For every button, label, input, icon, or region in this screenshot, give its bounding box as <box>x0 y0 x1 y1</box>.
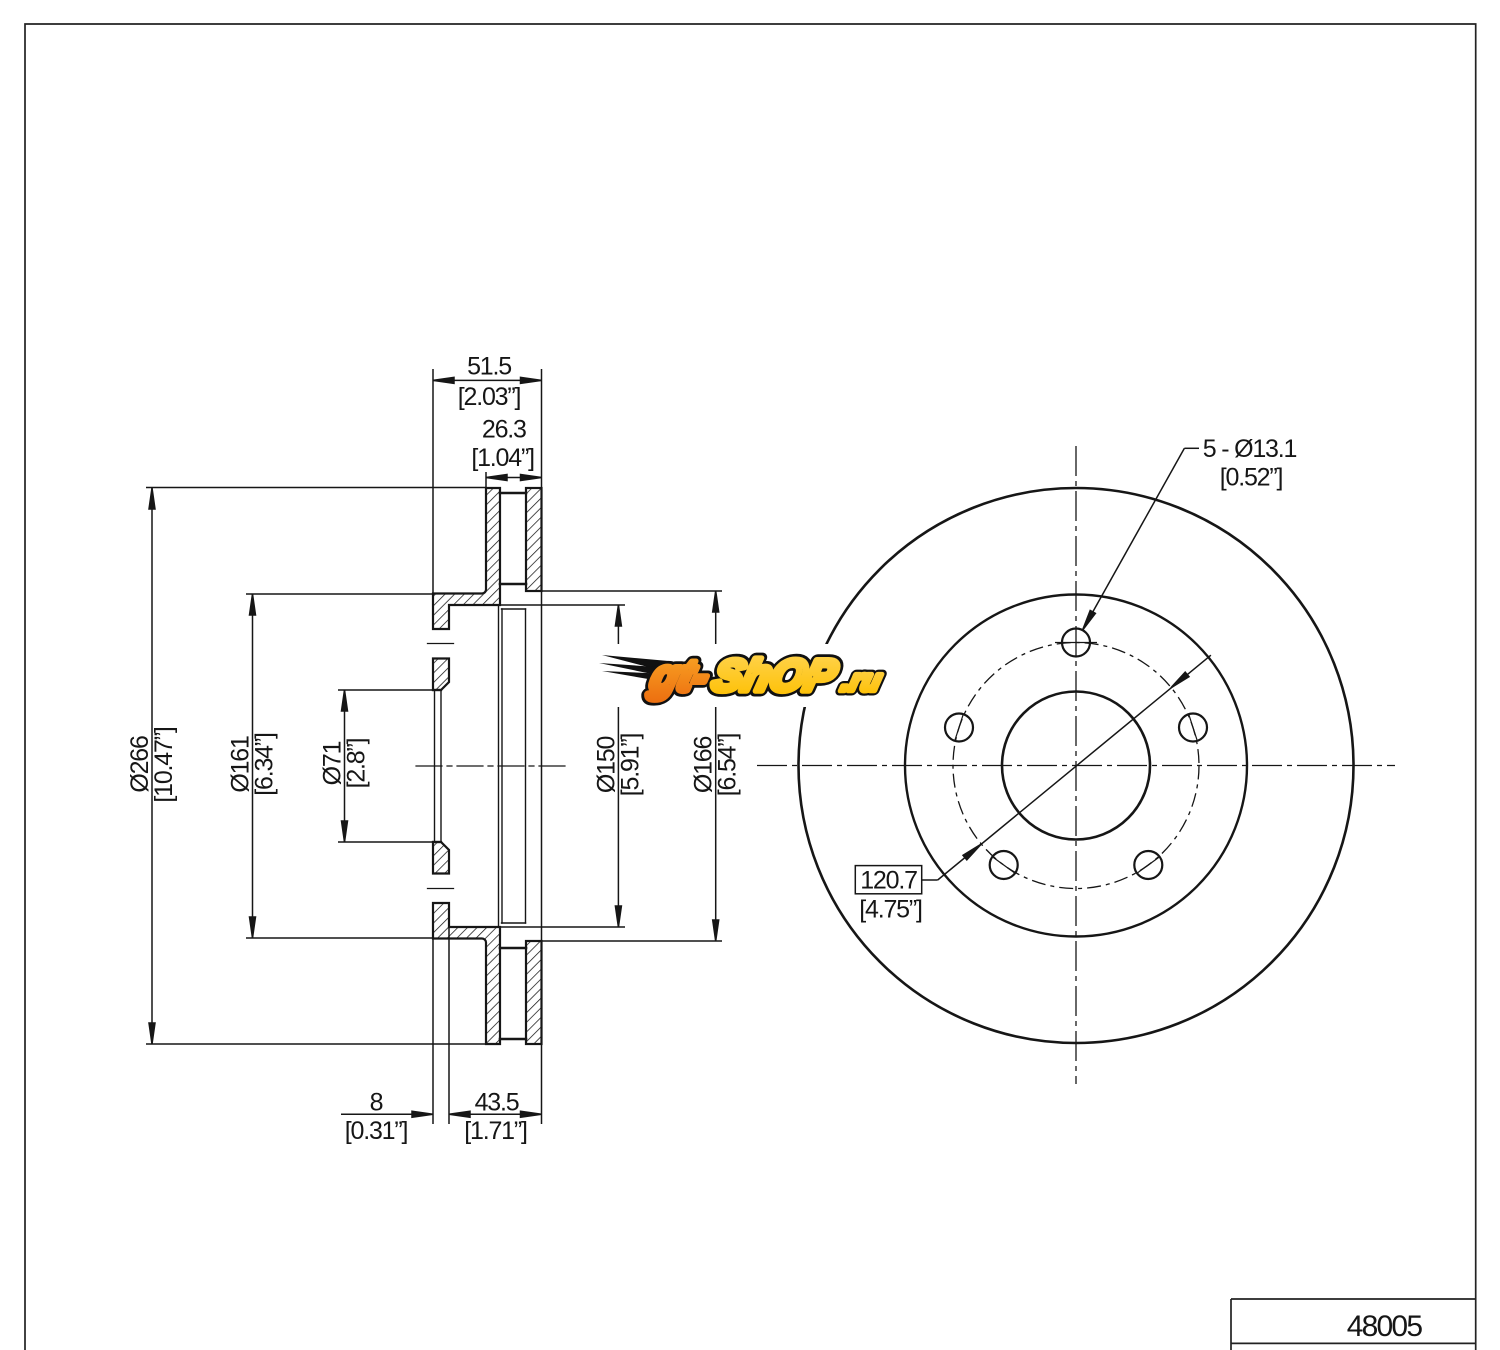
section centerline <box>416 765 565 767</box>
hatched body: left plate + flange (bottom half, mirrored) <box>433 903 500 1044</box>
svg-text:[1.71”]: [1.71”] <box>464 1117 527 1145</box>
horizontal centerline <box>757 765 1395 767</box>
svg-text:[2.03”]: [2.03”] <box>458 383 521 411</box>
dim Ø161 <box>252 594 254 938</box>
hub hole silhouette verticals <box>434 690 436 842</box>
120.7 bolt circle dimension <box>855 655 1211 894</box>
dim 8 (outside arrows) <box>341 1113 433 1115</box>
svg-text:[1.04”]: [1.04”] <box>471 444 534 472</box>
svg-text:ShOP: ShOP <box>708 652 842 700</box>
svg-text:[2.8”]: [2.8”] <box>343 738 371 788</box>
svg-text:120.7: 120.7 <box>860 867 917 895</box>
dim 51.5 <box>433 379 542 381</box>
dim Ø266 <box>151 488 153 1044</box>
hub hole Ø71 <box>1002 692 1150 840</box>
bolt hole lower-right <box>1134 851 1162 879</box>
hatched body: right plate (bottom half) <box>526 941 542 1044</box>
hub hole Ø71 edge lines <box>433 689 441 691</box>
hatched body: hat wall piece (bottom half) <box>433 842 449 874</box>
leader 5-Ø13.1 <box>1083 448 1200 630</box>
vertical centerline <box>1075 446 1077 1084</box>
hatched body: right plate (top half) <box>526 488 542 591</box>
hatched body: hat wall piece between bolt hole and hub hole (top half) <box>433 659 449 691</box>
svg-text:51.5: 51.5 <box>467 353 511 381</box>
dimension texts: left view <box>126 353 742 1146</box>
svg-text:8: 8 <box>370 1089 383 1117</box>
inner circle (hat outline) <box>905 595 1247 937</box>
bolt hole left <box>945 714 973 742</box>
outer circle Ø266 <box>799 488 1354 1043</box>
svg-text:gt-: gt- <box>645 652 714 700</box>
dim 43.5 <box>449 1113 542 1115</box>
svg-text:[0.52”]: [0.52”] <box>1220 464 1283 492</box>
bolt hole top <box>1062 629 1090 657</box>
dim Ø150 <box>617 605 619 927</box>
bolt hole right <box>1179 714 1207 742</box>
svg-text:48005: 48005 <box>1347 1310 1423 1343</box>
dim Ø71 <box>344 690 346 842</box>
hatched body: left plate + flange (top half) <box>433 488 500 629</box>
svg-text:[10.47”]: [10.47”] <box>150 727 178 802</box>
bolt hole centerline ticks in section <box>428 643 454 645</box>
speed lines <box>602 655 674 668</box>
svg-text:[0.31”]: [0.31”] <box>345 1117 408 1145</box>
pocket silhouette lines <box>502 608 526 610</box>
svg-text:[5.91”]: [5.91”] <box>616 734 644 797</box>
svg-text:26.3: 26.3 <box>482 415 526 443</box>
svg-text:[6.34”]: [6.34”] <box>251 733 279 796</box>
dim Ø166 <box>715 591 717 941</box>
dim 26.3 <box>486 477 542 479</box>
svg-text:5 - Ø13.1: 5 - Ø13.1 <box>1203 435 1297 463</box>
svg-text:[6.54”]: [6.54”] <box>714 734 742 797</box>
vent vane edge lines bottom <box>500 1038 526 1041</box>
vent vane edge lines top <box>500 492 526 495</box>
svg-text:43.5: 43.5 <box>475 1089 519 1117</box>
extension lines of section dimensions <box>146 369 722 1124</box>
svg-text:[4.75”]: [4.75”] <box>859 895 922 923</box>
bolt circle Ø120.7 dash-dot <box>953 643 1199 889</box>
dimension lines <box>149 377 719 1117</box>
bolt hole lower-left <box>990 851 1018 879</box>
